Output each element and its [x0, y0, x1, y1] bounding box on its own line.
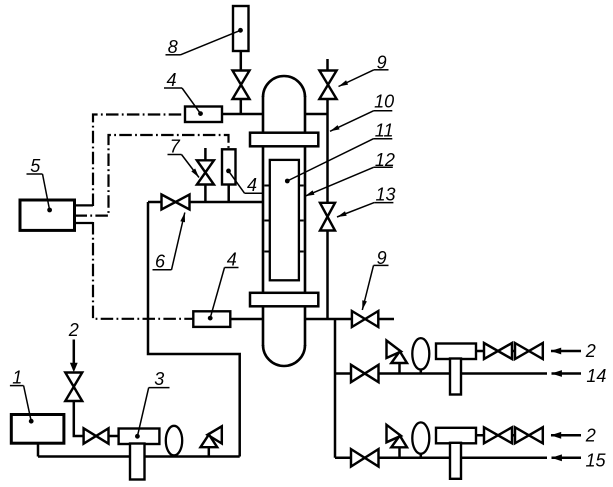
- vessel: bottom dome: [263, 345, 305, 366]
- pump 3 body: [119, 429, 160, 445]
- valve at pump 3 suction: [84, 428, 109, 443]
- svg-text:4: 4: [247, 175, 257, 195]
- vessel 12: spacer ticks row 1: [264, 185, 270, 187]
- wire: stem from valve below 8 down to y=114 line: [240, 98, 243, 114]
- pump 3 leg: [130, 444, 145, 480]
- svg-text:5: 5: [30, 156, 41, 176]
- thermostat U5: [20, 200, 75, 230]
- double shut-off valves: [484, 343, 543, 359]
- safety valve at pump 3: [208, 446, 211, 457]
- vessel: top dome: [263, 76, 305, 97]
- safety valve: [398, 446, 401, 458]
- flow arrow 15: [552, 457, 582, 460]
- pipe 10: vent stub above valve 9 (top): [326, 59, 329, 72]
- svg-text:2: 2: [585, 425, 596, 445]
- valve 9 (top vent): [319, 71, 336, 100]
- vessel 12: spacer ticks row 3: [264, 251, 270, 253]
- double shut-off valves: [484, 427, 543, 443]
- wire: line from heater 4 (top) to vessel at y=114: [222, 113, 264, 116]
- pump leg: [450, 443, 461, 479]
- pump body: [436, 344, 476, 360]
- flow arrow 2 (into valve 2): [73, 340, 76, 364]
- wire: main distribution riser x=335: [334, 319, 337, 458]
- svg-text:1: 1: [12, 368, 22, 388]
- vessel: autoclave right wall: [304, 96, 307, 346]
- wire: stem above valve 7: [204, 148, 207, 161]
- wire: stem below valve 7 to feed line: [204, 184, 207, 202]
- pipe 10: segment between valve 13 and bottom line: [326, 228, 329, 319]
- wire: capillary from thermostat 5 up to heater 4 (top): [93, 115, 185, 207]
- svg-text:10: 10: [374, 92, 394, 112]
- damper oval at pump 3: [173, 450, 176, 457]
- vessel: bottom flange: [250, 293, 318, 307]
- valve 13: [320, 203, 335, 231]
- valve 2 (water inlet): [65, 373, 82, 402]
- wire: stem between rotameter 8 and its valve: [240, 50, 243, 72]
- vessel 12: spacer ticks row 2: [264, 220, 270, 222]
- vessel 11: inner reaction vessel: [270, 160, 299, 280]
- valve 9 (bottom drain): [352, 311, 378, 327]
- svg-text:13: 13: [376, 185, 396, 205]
- vessel: top flange: [250, 133, 318, 147]
- tank 1: [11, 415, 64, 444]
- pipe 10: segment between valve 9 (top) and valve 13: [326, 98, 329, 204]
- safety valve: [398, 362, 401, 374]
- valve 6: [162, 195, 190, 210]
- svg-text:4: 4: [167, 70, 177, 90]
- heater 4 (top): [185, 107, 222, 123]
- svg-text:2: 2: [585, 341, 596, 361]
- svg-text:8: 8: [168, 37, 178, 57]
- svg-text:7: 7: [170, 137, 181, 157]
- sensor 4 (vertical): [222, 149, 236, 184]
- wire: pump discharge loop left-down-right: [148, 202, 240, 457]
- wire: solid stub thermostat 5 lower connection: [75, 222, 94, 224]
- svg-text:6: 6: [155, 252, 166, 272]
- svg-text:14: 14: [586, 366, 606, 386]
- wire: capillary from thermostat 5 down to heater 4 (bottom): [93, 222, 193, 319]
- wire: pump outlet to double valves: [476, 350, 543, 353]
- valve on metering line: [351, 365, 379, 382]
- wire: drain line from vessel bottom through valve 9 at y=319: [304, 318, 394, 321]
- damper oval: [420, 366, 423, 374]
- wire: line from heater 4 (bottom) to vessel bottom dome: [230, 318, 264, 321]
- svg-text:4: 4: [227, 250, 237, 270]
- svg-text:3: 3: [154, 369, 164, 389]
- valve 7: [197, 160, 214, 184]
- wire: solid stub thermostat 5 upper connection: [75, 204, 94, 206]
- svg-text:15: 15: [586, 450, 607, 470]
- pump leg: [450, 359, 461, 395]
- valve on metering line: [351, 449, 379, 466]
- wire: stem below sensor 4 (vertical) to feed line: [227, 184, 230, 202]
- wire: bottom suction line at y=456.5: [38, 455, 240, 458]
- vessel 10/11/12: autoclave left wall: [262, 96, 265, 346]
- flow arrow 14: [552, 372, 582, 375]
- flow arrow 2 (inlet): [551, 350, 581, 353]
- heater 4 (bottom): [193, 311, 230, 327]
- flow arrow 2 (inlet): [551, 434, 581, 437]
- wire: feed line through valve 6 into vessel at y=202: [148, 201, 264, 204]
- pump assembly B (copy shifted down): [335, 422, 581, 478]
- wire: from valve 2 down and right to pump 3: [74, 400, 119, 436]
- wire: line from vessel right wall to pipe 10 at y=114: [304, 113, 328, 116]
- pump body: [436, 428, 476, 444]
- valve below rotameter 8: [233, 71, 250, 100]
- wire: metering line: [335, 457, 547, 460]
- damper oval: [420, 450, 423, 458]
- svg-text:2: 2: [68, 320, 79, 340]
- wire: capillary from thermostat 5 to sensor 4 (vertical): [75, 135, 229, 216]
- svg-text:11: 11: [375, 121, 394, 141]
- rotameter 8: [233, 6, 249, 51]
- wire: stub from tank 1 bottom to suction line: [37, 443, 40, 457]
- wire: metering line: [335, 372, 547, 375]
- wire: pump outlet to double valves: [476, 434, 543, 437]
